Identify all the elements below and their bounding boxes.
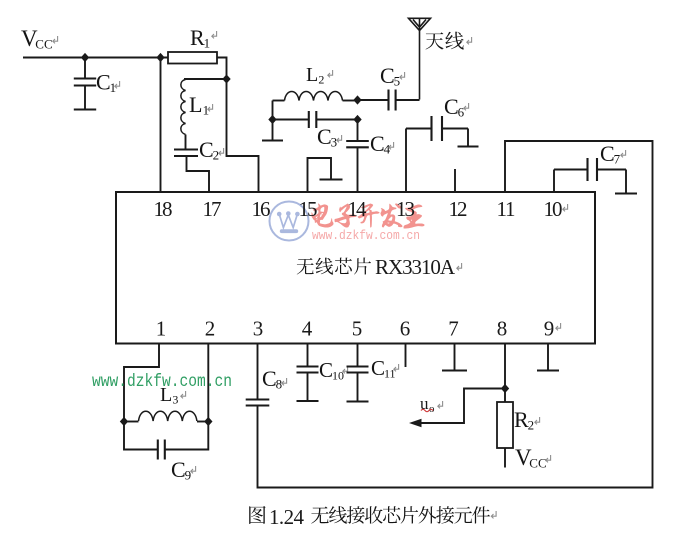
- svg-text:C: C: [262, 366, 277, 391]
- svg-text:C: C: [171, 457, 186, 482]
- wire pin 15 dogleg: [308, 158, 332, 192]
- svg-text:C: C: [319, 358, 333, 382]
- svg-text:8: 8: [497, 317, 508, 341]
- svg-text:C: C: [371, 356, 385, 380]
- svg-text:www.dzkfw.com.cn: www.dzkfw.com.cn: [312, 229, 420, 243]
- wire R1 right to pin 16: [217, 58, 259, 193]
- svg-text:4: 4: [384, 142, 391, 157]
- capacitor C10: [297, 344, 348, 401]
- svg-text:10: 10: [544, 197, 563, 221]
- inductor L2: [273, 64, 358, 101]
- svg-text:RX3310A: RX3310A: [375, 255, 456, 279]
- wire R2 bottom to Vcc: [504, 448, 506, 468]
- inductor L1: [181, 80, 213, 135]
- op IC U1 RX3310A box: [116, 192, 595, 344]
- svg-text:14: 14: [348, 197, 368, 221]
- wire pin 11 loop to C8 bottom: [258, 141, 653, 488]
- svg-text:10: 10: [332, 369, 344, 383]
- wire pin 9 down: [547, 344, 549, 371]
- wire pin 12 stub: [454, 169, 456, 192]
- wire Vcc junction to pin 18: [160, 58, 162, 193]
- svg-text:5: 5: [394, 74, 401, 89]
- svg-text:CC: CC: [529, 456, 546, 471]
- svg-text:17: 17: [203, 197, 222, 221]
- resistor R1: [168, 25, 217, 64]
- ground (C6): [458, 129, 479, 147]
- resistor R2: [497, 402, 540, 448]
- ground (C10): [297, 400, 319, 402]
- svg-text:1: 1: [110, 80, 117, 95]
- watermark text 电子开发王: [311, 203, 424, 228]
- ground (pin 9): [537, 369, 559, 371]
- capacitor C6: [406, 94, 469, 192]
- svg-text:2: 2: [318, 73, 324, 87]
- junction dot L2 right top: [353, 95, 361, 104]
- svg-text:3: 3: [172, 393, 178, 407]
- U1 top pin numbers 18..10: [154, 197, 568, 221]
- svg-text:16: 16: [252, 197, 271, 221]
- svg-text:6: 6: [458, 105, 465, 120]
- power label Vcc (at R2): [515, 445, 551, 471]
- svg-text:1: 1: [156, 317, 167, 341]
- capacitor C8: [246, 344, 287, 406]
- capacitor C7: [554, 141, 626, 192]
- svg-text:C: C: [199, 137, 214, 162]
- svg-text:C: C: [96, 70, 111, 95]
- svg-text:1.24: 1.24: [269, 505, 305, 529]
- svg-text:9: 9: [544, 317, 555, 341]
- svg-text:3: 3: [253, 317, 264, 341]
- U1 label 无线芯片 RX3310A: [297, 255, 462, 279]
- junction dot at C1 tap: [81, 53, 89, 62]
- svg-text:2: 2: [213, 148, 220, 163]
- junction dot at L1 top: [222, 74, 230, 83]
- svg-text:www.dzkfw.com.cn: www.dzkfw.com.cn: [92, 372, 232, 392]
- ground (below C1): [74, 108, 96, 110]
- wire pin 2 down: [207, 344, 209, 422]
- capacitor C3: [273, 111, 358, 150]
- antenna: [409, 18, 431, 99]
- svg-text:C: C: [600, 141, 615, 166]
- svg-text:2: 2: [528, 418, 535, 433]
- junction dot pin 8: [501, 384, 509, 393]
- wire pin 7 down: [454, 344, 456, 371]
- svg-text:C: C: [370, 131, 385, 156]
- svg-text:18: 18: [154, 197, 173, 221]
- ground (C11): [347, 400, 369, 402]
- wire C2 bottom to pin 17: [187, 157, 210, 193]
- svg-text:C: C: [444, 94, 459, 119]
- ground (C7): [615, 170, 637, 194]
- svg-text:4: 4: [302, 317, 313, 341]
- junction dot L3 left: [120, 417, 128, 426]
- svg-text:8: 8: [276, 377, 283, 392]
- svg-text:C: C: [380, 63, 395, 88]
- wire pin 6 stub: [405, 344, 407, 368]
- svg-text:7: 7: [614, 152, 621, 167]
- capacitor C9: [124, 422, 208, 483]
- ground (pin 7): [442, 369, 467, 371]
- svg-text:15: 15: [299, 197, 318, 221]
- junction dot C3 right: [353, 115, 361, 124]
- wire L1 top lead: [184, 78, 227, 80]
- capacitor C5: [358, 63, 420, 111]
- wire output branch from pin 8: [412, 389, 505, 424]
- svg-text:CC: CC: [35, 37, 52, 52]
- svg-text:L: L: [189, 92, 202, 117]
- svg-text:1: 1: [204, 36, 211, 51]
- svg-text:12: 12: [449, 197, 468, 221]
- output label uo: [420, 394, 443, 415]
- capacitor C11: [347, 344, 399, 401]
- capacitor C2: [174, 135, 224, 163]
- wire pin 8 to R2: [504, 344, 506, 403]
- caption 图1.24 无线接收芯片外接元件: [249, 505, 496, 529]
- watermark W glyph: [277, 211, 300, 233]
- svg-text:11: 11: [497, 197, 516, 221]
- svg-text:9: 9: [185, 468, 192, 483]
- watermark logo circle: [270, 202, 309, 241]
- junction dot L2 left: [268, 115, 276, 124]
- svg-text:7: 7: [448, 317, 459, 341]
- svg-text:2: 2: [205, 317, 216, 341]
- wire pin 1 dogleg: [124, 344, 159, 422]
- junction dot at Vcc/pin18: [156, 53, 164, 62]
- svg-text:L: L: [306, 64, 318, 86]
- wire Vcc rail: [23, 57, 168, 59]
- svg-text:6: 6: [400, 317, 411, 341]
- junction dot L3 right: [204, 417, 212, 426]
- svg-text:3: 3: [331, 135, 338, 150]
- output arrow head: [409, 419, 422, 427]
- svg-text:13: 13: [396, 197, 415, 221]
- capacitor C4: [346, 120, 393, 193]
- U1 bottom pin numbers 1..9: [156, 317, 561, 341]
- ground (pin 15): [320, 178, 343, 180]
- svg-text:C: C: [317, 124, 332, 149]
- antenna label 天线: [426, 32, 472, 50]
- capacitor C1: [74, 58, 120, 110]
- svg-text:5: 5: [352, 317, 363, 341]
- inductor L3: [124, 384, 208, 422]
- ground (L2/C3 left node): [262, 120, 283, 141]
- power label Vcc (top left): [21, 26, 58, 52]
- wire L2 left down: [272, 101, 274, 120]
